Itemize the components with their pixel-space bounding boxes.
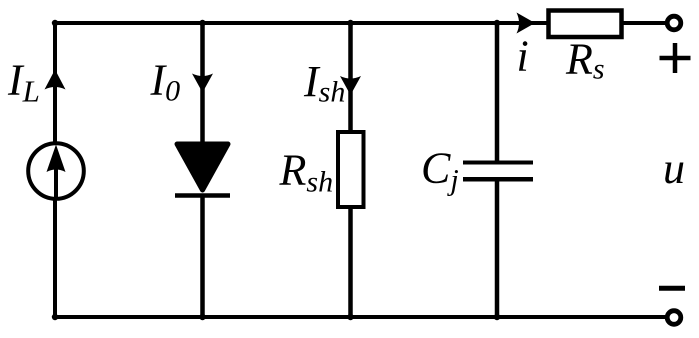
junction node C_j top	[494, 20, 500, 26]
arrow i current direction	[517, 13, 536, 34]
junction node C_j bottom	[494, 314, 500, 320]
svg-text:Rsh: Rsh	[279, 146, 334, 199]
junction node R_sh bottom	[347, 314, 353, 320]
arrow I_0 current direction	[192, 74, 213, 93]
capacitor C_j top plate	[463, 161, 533, 165]
wire C_j branch upper	[495, 23, 500, 162]
svg-text:Rs: Rs	[565, 35, 605, 86]
wire bottom bus	[55, 315, 666, 319]
wire left branch lower	[53, 200, 57, 319]
svg-text:I0: I0	[150, 56, 181, 108]
arrow I_sh current direction	[340, 76, 361, 95]
junction node bottom-left	[52, 314, 58, 320]
current source I_L	[28, 143, 84, 199]
diode D cathode bar	[175, 193, 230, 198]
wire top bus	[55, 21, 549, 25]
wire C_j branch lower	[495, 179, 500, 317]
resistor R_s	[549, 11, 622, 38]
junction node diode top	[199, 20, 205, 26]
svg-text:Cj: Cj	[421, 144, 459, 197]
junction node diode bottom	[199, 314, 205, 320]
wire R_sh branch upper	[348, 23, 353, 134]
svg-text:i: i	[517, 32, 529, 81]
junction node R_sh top	[347, 20, 353, 26]
arrow I_L current direction	[45, 70, 66, 90]
wire diode branch upper	[200, 23, 205, 144]
label minus sign	[659, 286, 685, 291]
terminal negative (bottom right)	[667, 311, 681, 325]
resistor R_sh	[338, 132, 364, 207]
junction node top-left	[52, 20, 58, 26]
svg-text:Ish: Ish	[303, 57, 345, 109]
svg-text:u: u	[663, 144, 685, 193]
terminal positive (top right)	[667, 16, 681, 30]
wire R_sh branch lower	[348, 205, 353, 317]
diode D anode triangle	[177, 144, 228, 190]
wire top-right segment (R_s to positive terminal)	[620, 21, 666, 25]
capacitor C_j bottom plate	[463, 177, 533, 182]
wire diode branch lower	[200, 195, 205, 317]
svg-text:IL: IL	[7, 56, 40, 109]
wire left branch upper	[53, 21, 57, 142]
label plus sign	[660, 43, 691, 73]
